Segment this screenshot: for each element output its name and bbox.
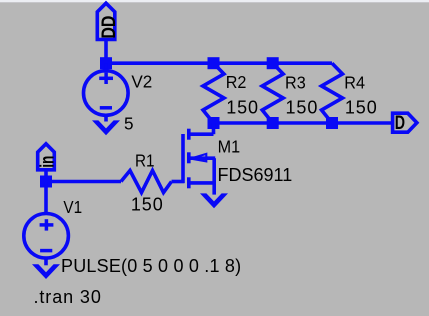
ground below V1 <box>32 264 60 279</box>
svg-text:M1: M1 <box>218 137 240 157</box>
port flag in <box>38 144 55 170</box>
wire R1 to gate <box>172 180 185 184</box>
voltage source V1 <box>24 182 69 266</box>
svg-text:V2: V2 <box>131 71 152 92</box>
resistor R3 <box>262 63 283 123</box>
node R3 top junction <box>267 57 279 69</box>
node M1 drain junction <box>208 117 220 129</box>
svg-text:FDS6911: FDS6911 <box>218 165 293 185</box>
svg-text:DD: DD <box>98 16 120 39</box>
node R4 bottom junction <box>326 117 338 129</box>
node VDD junction <box>100 57 112 69</box>
svg-text:150: 150 <box>286 97 319 117</box>
svg-text:R1: R1 <box>135 150 155 170</box>
svg-text:PULSE(0 5 0 0 0 .1 8): PULSE(0 5 0 0 0 .1 8) <box>61 256 241 276</box>
svg-text:R2: R2 <box>226 72 247 92</box>
svg-text:.tran 30: .tran 30 <box>34 287 102 307</box>
svg-text:V1: V1 <box>63 197 82 217</box>
node in junction <box>40 176 52 188</box>
port flag DD <box>97 3 115 39</box>
wire DD stem <box>104 40 108 64</box>
resistor R2 <box>203 63 224 123</box>
svg-text:150: 150 <box>345 97 378 117</box>
wire bottom rail <box>214 121 393 125</box>
node R2 top junction <box>208 57 220 69</box>
transistor M1 <box>183 123 215 195</box>
svg-text:in: in <box>36 156 58 168</box>
wire in stem <box>44 170 48 182</box>
ground below V2 <box>92 120 120 135</box>
resistor R1 <box>121 171 172 193</box>
svg-text:R3: R3 <box>285 73 306 93</box>
resistor R4 <box>322 63 343 123</box>
svg-text:R4: R4 <box>344 73 365 93</box>
port flag D <box>393 113 417 132</box>
svg-text:D: D <box>395 112 405 133</box>
svg-text:150: 150 <box>226 97 259 117</box>
svg-text:150: 150 <box>131 194 164 214</box>
ground below M1 source <box>200 193 228 208</box>
node R3 bottom junction <box>267 117 279 129</box>
wire in to R1 <box>46 180 121 184</box>
wire top rail <box>106 61 332 65</box>
svg-text:5: 5 <box>124 113 134 134</box>
voltage source V2 <box>84 63 129 121</box>
